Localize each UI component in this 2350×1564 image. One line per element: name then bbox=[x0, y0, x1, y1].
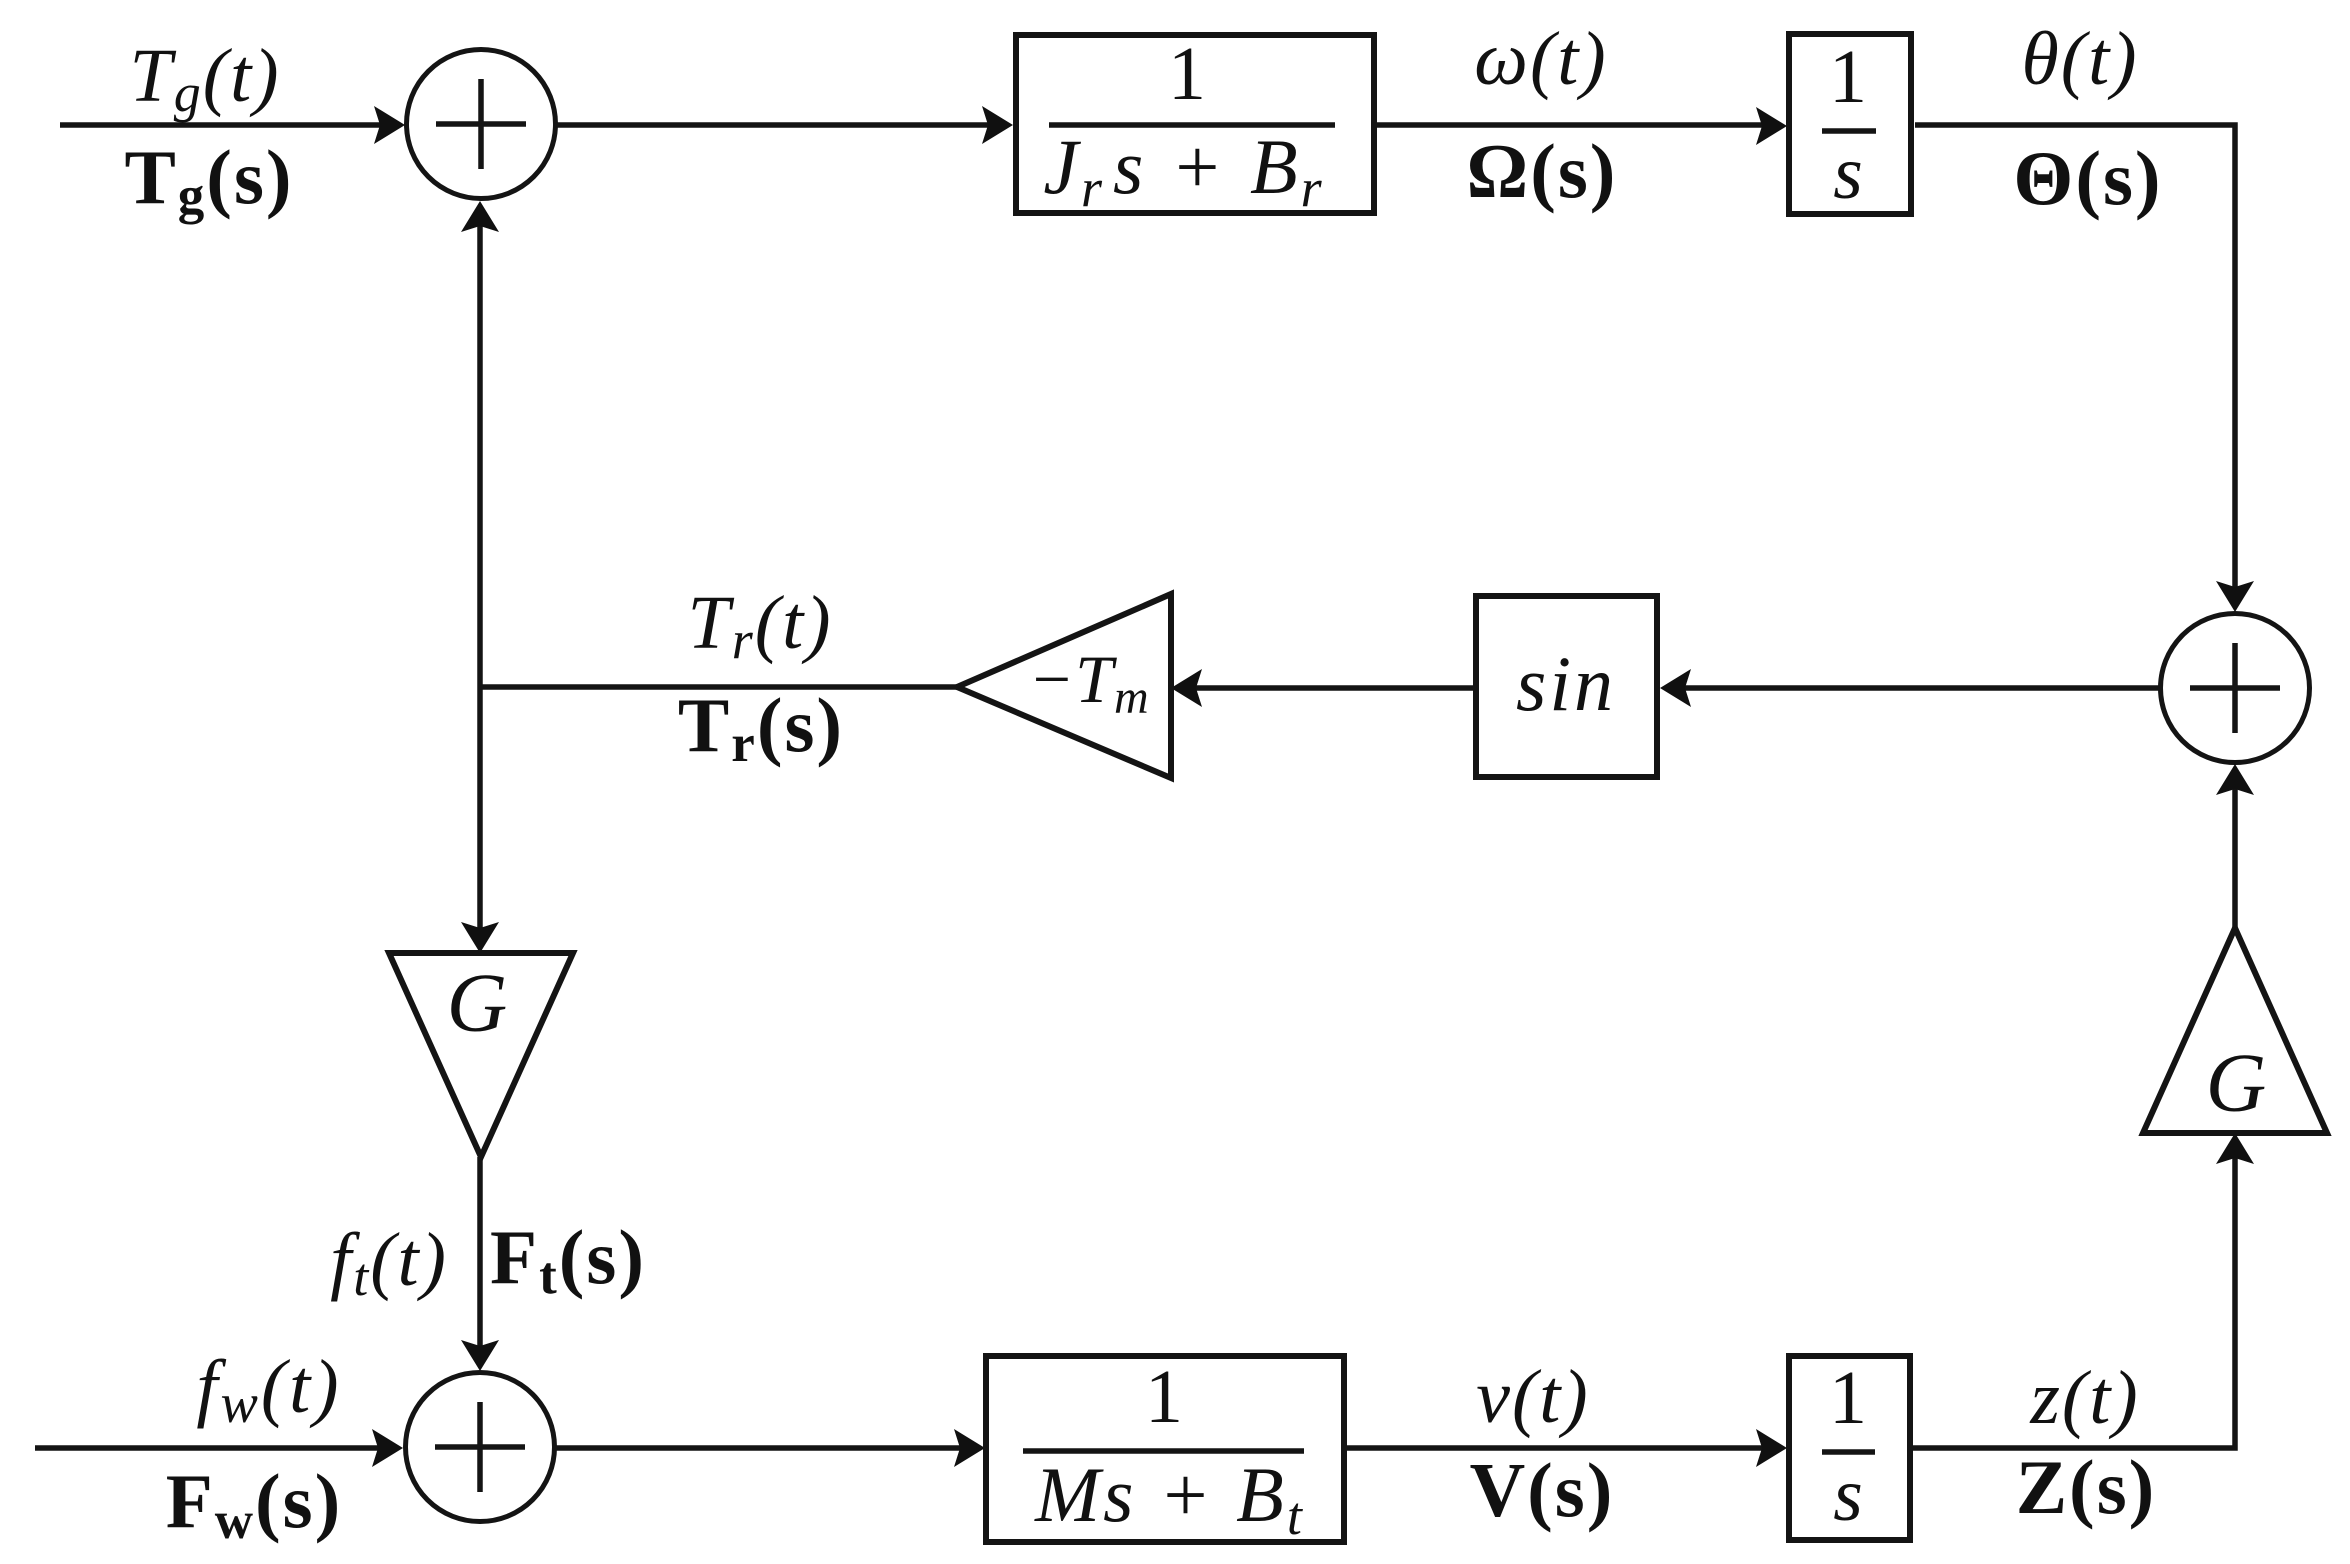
svg-text:Ω(s): Ω(s) bbox=[1467, 128, 1618, 214]
svg-text:s: s bbox=[1833, 1453, 1863, 1537]
gain triangle G2 (up) bbox=[2143, 928, 2327, 1133]
wire B1 to B2 bbox=[1377, 122, 1772, 128]
arrowhead into block B4 bbox=[1756, 1429, 1787, 1467]
arrowhead into summing junction S1 bbox=[374, 106, 405, 144]
B2 fraction bar bbox=[1822, 128, 1876, 134]
wire G2 to S2 bbox=[2232, 779, 2238, 928]
svg-text:v(t): v(t) bbox=[1476, 1355, 1589, 1439]
block B1 1/(Jr s + Br) bbox=[1016, 35, 1374, 213]
wire node up to S1 bbox=[477, 216, 483, 687]
arrowhead down into S3 bbox=[461, 1340, 499, 1371]
svg-text:θ(t): θ(t) bbox=[2021, 17, 2138, 101]
wire node down to gain G1 bbox=[477, 687, 483, 938]
svg-text:Tr(t): Tr(t) bbox=[687, 581, 832, 670]
svg-text:1: 1 bbox=[1145, 1355, 1183, 1439]
svg-text:ω(t): ω(t) bbox=[1474, 17, 1607, 101]
arrowhead down into G1 bbox=[461, 922, 499, 953]
B1 fraction bar bbox=[1049, 122, 1335, 128]
arrowhead up into S1 bbox=[461, 201, 499, 232]
wire sin to gain -Tm bbox=[1186, 685, 1475, 691]
wire S2 to sin block bbox=[1675, 685, 2160, 691]
svg-text:Tg(s): Tg(s) bbox=[124, 134, 293, 225]
svg-text:Z(s): Z(s) bbox=[2016, 1444, 2157, 1530]
summing junction S2 bbox=[2161, 614, 2310, 763]
gain triangle -Tm bbox=[957, 594, 1171, 778]
block sin bbox=[1476, 596, 1657, 777]
arrowhead down into summing junction S2 bbox=[2216, 581, 2254, 612]
wire B3 to B4 bbox=[1346, 1445, 1772, 1451]
svg-text:z(t): z(t) bbox=[2029, 1356, 2139, 1440]
wire S1 to block B1 bbox=[556, 122, 998, 128]
B3 fraction bar bbox=[1023, 1448, 1304, 1454]
arrowhead into sin block bbox=[1660, 669, 1691, 707]
svg-text:Θ(s): Θ(s) bbox=[2013, 135, 2162, 221]
summing junction S1 bbox=[407, 50, 556, 199]
svg-text:G: G bbox=[2206, 1037, 2267, 1130]
arrowhead into block B3 bbox=[954, 1429, 985, 1467]
svg-text:s: s bbox=[1833, 131, 1863, 215]
wire B2 to right corner and down to S2 bbox=[1915, 125, 2235, 597]
svg-text:sin: sin bbox=[1516, 640, 1616, 727]
arrowhead up into G2 bbox=[2216, 1133, 2254, 1164]
svg-text:Tg(t): Tg(t) bbox=[129, 34, 280, 123]
wire -Tm to left vertical node bbox=[480, 684, 957, 690]
arrowhead into block B1 bbox=[982, 106, 1013, 144]
block B2 1/s bbox=[1789, 34, 1911, 214]
arrowhead up into S2 bbox=[2216, 764, 2254, 795]
svg-text:ft(t): ft(t) bbox=[330, 1218, 448, 1307]
summing junction S3 bbox=[406, 1373, 555, 1522]
wire input Tg bbox=[60, 122, 390, 128]
svg-text:fw(t): fw(t) bbox=[196, 1345, 341, 1435]
svg-text:1: 1 bbox=[1829, 1356, 1867, 1440]
wire B4 to right corner and up to G2 bbox=[1913, 1148, 2235, 1448]
arrowhead into S3 bbox=[372, 1429, 403, 1467]
svg-text:V(s): V(s) bbox=[1470, 1447, 1615, 1533]
arrowhead into gain -Tm bbox=[1171, 669, 1202, 707]
wire G1 to S3 bbox=[477, 1157, 483, 1356]
gain triangle G1 (down) bbox=[389, 953, 573, 1157]
wire S3 to block B3 bbox=[556, 1445, 970, 1451]
svg-text:Ft(s): Ft(s) bbox=[490, 1214, 646, 1305]
svg-text:1: 1 bbox=[1829, 35, 1867, 119]
svg-text:1: 1 bbox=[1168, 32, 1206, 116]
svg-text:Tr(s): Tr(s) bbox=[678, 682, 844, 773]
block B4 1/s bbox=[1789, 1356, 1910, 1540]
block B3 1/(Ms + Bt) bbox=[986, 1356, 1344, 1542]
svg-text:Ms+Bt: Ms+Bt bbox=[1034, 1451, 1305, 1546]
arrowhead into block B2 bbox=[1756, 107, 1787, 145]
wire input fw bbox=[35, 1445, 388, 1451]
svg-text:G: G bbox=[447, 957, 508, 1050]
B4 fraction bar bbox=[1822, 1449, 1875, 1455]
